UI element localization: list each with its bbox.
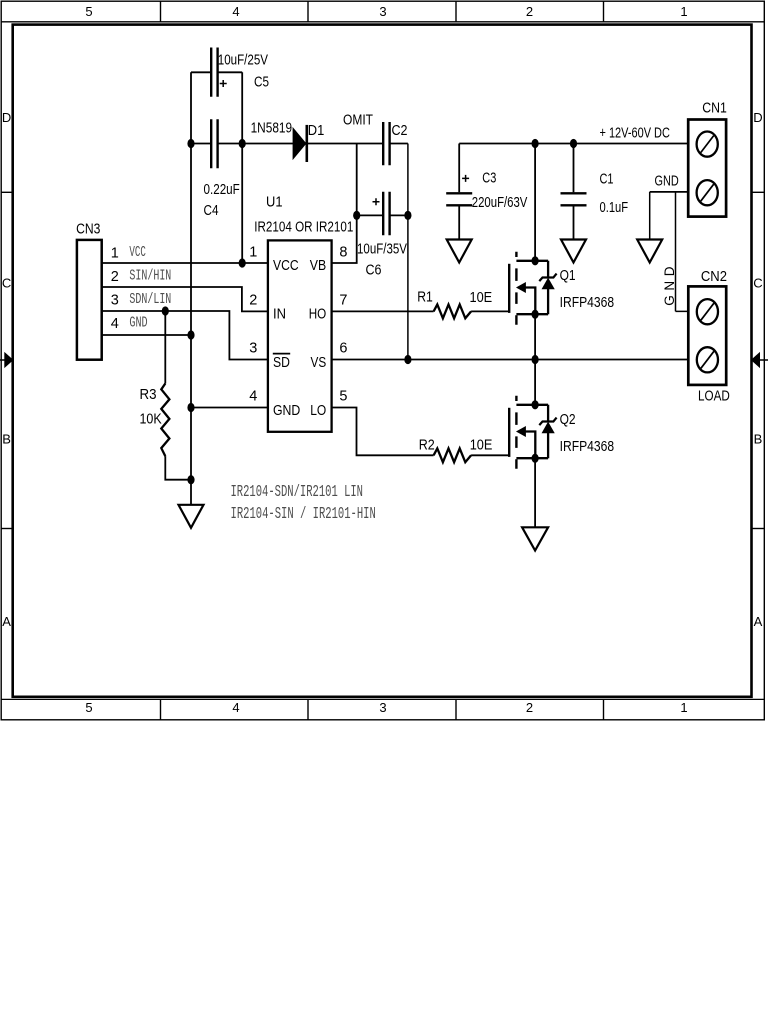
wire U1 GND pin 4 [191, 407, 268, 409]
svg-text:5: 5 [85, 700, 92, 715]
svg-text:C2: C2 [392, 123, 408, 139]
junction C4-C5 left [187, 139, 194, 148]
svg-text:C: C [753, 276, 762, 291]
svg-text:2: 2 [111, 269, 119, 285]
ground below C1 [561, 240, 586, 263]
svg-text:GND: GND [655, 174, 679, 190]
svg-text:GND: GND [662, 262, 677, 306]
U1 pin name labels [273, 258, 326, 419]
svg-text:1N5819: 1N5819 [251, 120, 293, 136]
svg-text:C: C [2, 276, 11, 291]
junction C6 right [404, 211, 411, 220]
wire +12V rail [459, 144, 688, 193]
svg-text:3: 3 [379, 4, 386, 19]
junction VS left [404, 355, 411, 364]
svg-text:IR2104-SDN/IR2101 LIN: IR2104-SDN/IR2101 LIN [231, 483, 364, 502]
svg-text:2: 2 [526, 4, 533, 19]
junction GND CN3 [187, 330, 194, 339]
svg-text:+ 12V-60V DC: + 12V-60V DC [600, 125, 670, 141]
svg-text:R3: R3 [140, 387, 157, 403]
svg-text:CN1: CN1 [702, 100, 727, 116]
wire VCC row CN3 to U1 pin 1 [102, 144, 268, 264]
svg-text:IN: IN [273, 306, 286, 322]
svg-text:C4: C4 [204, 203, 219, 219]
svg-text:B: B [2, 432, 11, 447]
svg-text:10E: 10E [470, 290, 493, 306]
ground below CN1 GND [637, 240, 662, 263]
wire SDN/LIN to SD pin 3 [102, 311, 268, 360]
svg-text:C5: C5 [254, 75, 269, 91]
svg-text:0.1uF: 0.1uF [600, 200, 629, 216]
svg-text:HO: HO [309, 306, 327, 322]
svg-text:U1: U1 [266, 195, 283, 211]
svg-text:1: 1 [680, 700, 687, 715]
svg-text:5: 5 [85, 4, 92, 19]
wire half-bridge vertical [534, 144, 536, 528]
connector CN2 [688, 269, 730, 405]
CN3 pin numbers [111, 246, 119, 332]
wire HO row to R1 and Q1 gate [332, 310, 510, 312]
junction VS mid [532, 355, 539, 364]
junction GND U1 pin4 [187, 403, 194, 412]
svg-text:4: 4 [232, 4, 239, 19]
svg-text:SD: SD [273, 355, 290, 371]
ground below Q2 source [522, 527, 548, 550]
op-amp U1 IR2104 box [268, 240, 332, 431]
capacitor C3 220uF/63V [446, 171, 527, 212]
wire CN1 GND net [650, 191, 689, 193]
wire R3 leads [165, 311, 191, 480]
junction C4-C5 right [239, 139, 246, 148]
transistor Q2 IRFP4368 [509, 396, 614, 469]
svg-text:8: 8 [339, 245, 347, 261]
junction rail C1 [570, 139, 577, 148]
svg-text:4: 4 [232, 700, 239, 715]
svg-text:R1: R1 [417, 290, 433, 306]
svg-text:3: 3 [249, 341, 257, 357]
capacitor C2 (OMIT) [343, 113, 408, 166]
svg-text:LOAD: LOAD [698, 388, 730, 404]
svg-text:IRFP4368: IRFP4368 [560, 439, 615, 455]
junction Q1 drain [532, 256, 539, 265]
junction Q1 source [532, 310, 539, 319]
wire C1 leads [573, 144, 575, 240]
wire C5 top branch [191, 72, 242, 143]
note IR2104 pin naming [231, 483, 376, 524]
svg-text:D: D [753, 110, 762, 125]
svg-text:1: 1 [111, 246, 119, 262]
svg-text:IR2104 OR IR2101: IR2104 OR IR2101 [254, 219, 353, 235]
wire VS row [332, 359, 689, 361]
svg-text:D: D [2, 110, 11, 125]
wire GND row CN3 [102, 334, 191, 336]
capacitor C1 0.1uF [561, 171, 629, 216]
svg-text:Q1: Q1 [560, 268, 576, 284]
wire VB-VS branch vertical [407, 144, 409, 360]
wire C3 lower lead [458, 206, 460, 239]
svg-text:10K: 10K [140, 412, 162, 428]
svg-text:0.22uF: 0.22uF [204, 182, 240, 198]
wire CN1 GND verticals [650, 192, 689, 312]
CN3 net name labels [129, 245, 171, 332]
svg-text:IRFP4368: IRFP4368 [560, 295, 615, 311]
resistor R2 10E [419, 438, 493, 463]
junction SDN/LIN R3 tap [162, 306, 169, 315]
svg-text:3: 3 [379, 700, 386, 715]
capacitor C6 [357, 192, 407, 278]
connector CN3 [76, 221, 102, 359]
svg-text:220uF/63V: 220uF/63V [472, 195, 528, 211]
svg-text:SIN/HIN: SIN/HIN [129, 269, 171, 285]
wire LO to R2 and Q2 gate [332, 408, 510, 456]
svg-text:5: 5 [339, 389, 347, 405]
svg-text:C6: C6 [366, 262, 382, 278]
svg-text:R2: R2 [419, 438, 435, 454]
svg-text:LO: LO [310, 403, 326, 419]
resistor R3 10K [140, 384, 170, 457]
junction Q2 drain [532, 400, 539, 409]
ground below C3 [447, 240, 472, 263]
svg-text:VCC: VCC [129, 245, 146, 261]
svg-text:A: A [754, 614, 763, 629]
svg-text:Q2: Q2 [560, 412, 576, 428]
svg-text:CN3: CN3 [76, 221, 100, 237]
svg-text:6: 6 [339, 341, 347, 357]
svg-text:10uF/35V: 10uF/35V [357, 241, 407, 257]
junction GND R3 bottom [187, 475, 194, 484]
svg-text:1: 1 [249, 245, 257, 261]
svg-text:VB: VB [310, 258, 326, 274]
resistor R1 10E [417, 290, 492, 319]
wire main VCC diode row [191, 143, 408, 145]
connector CN1 [688, 100, 727, 216]
junction VCC pin1 [239, 258, 246, 267]
svg-text:10E: 10E [470, 438, 493, 454]
svg-text:B: B [754, 432, 763, 447]
svg-text:A: A [2, 614, 11, 629]
svg-text:10uF/25V: 10uF/25V [218, 52, 268, 68]
svg-text:VS: VS [311, 355, 327, 371]
svg-text:C1: C1 [600, 171, 614, 187]
wire VB vertical to pin 8 [332, 144, 357, 264]
diode D1 1N5819 [251, 120, 325, 162]
capacitor C5 [211, 48, 269, 97]
junction Q2 source [532, 454, 539, 463]
svg-text:2: 2 [249, 293, 257, 309]
svg-text:4: 4 [249, 389, 257, 405]
svg-text:3: 3 [111, 292, 119, 308]
svg-text:7: 7 [339, 293, 347, 309]
svg-text:C3: C3 [482, 171, 496, 187]
wire C6 row [357, 214, 408, 216]
svg-text:D1: D1 [308, 123, 325, 139]
U1 pin numbers [249, 245, 347, 405]
svg-text:4: 4 [111, 316, 119, 332]
wire GND bus left [190, 144, 192, 505]
svg-text:GND: GND [273, 403, 300, 419]
svg-text:VCC: VCC [273, 258, 299, 274]
junction rail Q1 drain [532, 139, 539, 148]
svg-text:1: 1 [680, 4, 687, 19]
junction C6 left [353, 211, 360, 220]
svg-text:IR2104-SIN / IR2101-HIN: IR2104-SIN / IR2101-HIN [231, 505, 376, 524]
svg-text:SDN/LIN: SDN/LIN [129, 292, 171, 308]
svg-text:2: 2 [526, 700, 533, 715]
ground below R3 GND bus [179, 505, 204, 528]
svg-text:OMIT: OMIT [343, 113, 373, 129]
svg-text:CN2: CN2 [701, 269, 727, 285]
wire SIN/HIN to IN pin 2 [102, 287, 268, 311]
svg-text:GND: GND [129, 316, 147, 332]
U1 ref labels [254, 195, 353, 236]
capacitor C4 [204, 119, 240, 219]
transistor Q1 IRFP4368 [509, 252, 614, 325]
